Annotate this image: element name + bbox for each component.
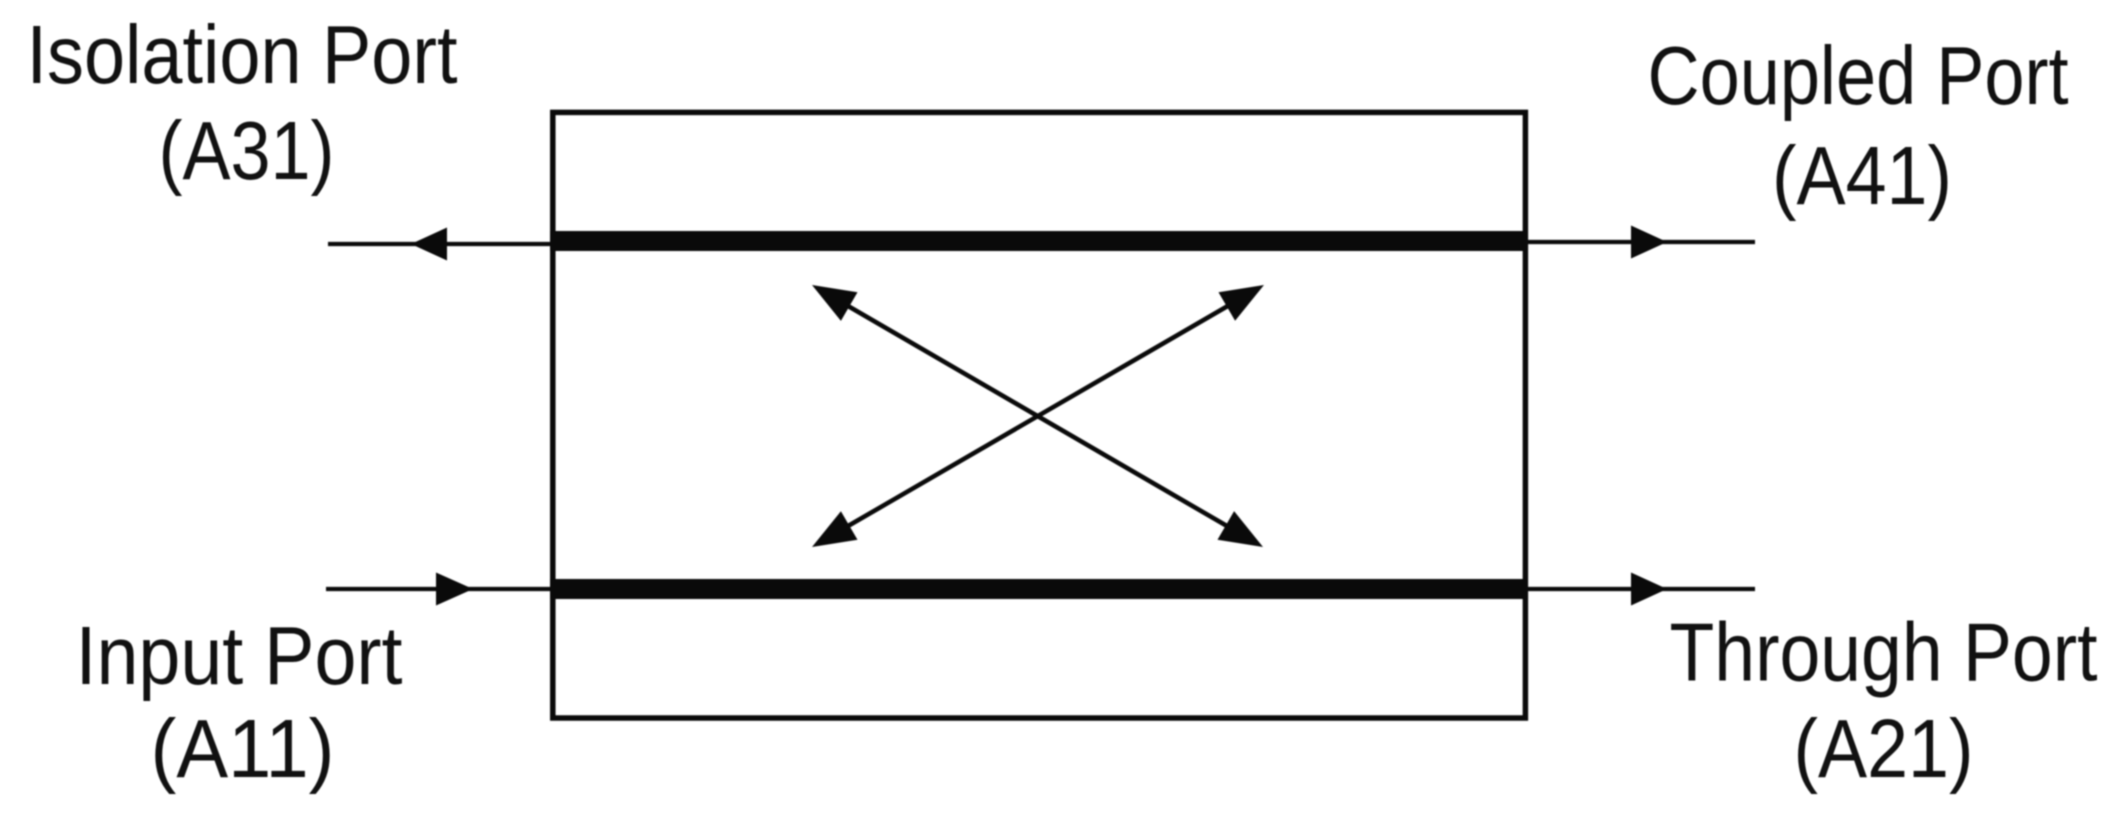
svg-text:Through Port: Through Port xyxy=(1670,606,2098,699)
arrow A head upper-left xyxy=(812,285,858,321)
arrowhead pointing left (isolation port) xyxy=(411,228,447,261)
arrowhead pointing right (coupled port) xyxy=(1631,226,1667,259)
svg-text:Isolation Port: Isolation Port xyxy=(27,8,458,101)
wire: through port lead (bottom right) xyxy=(1525,587,1755,591)
svg-text:Coupled Port: Coupled Port xyxy=(1648,29,2069,122)
coupling path arrow B shaft (down-left to up-right) xyxy=(845,304,1231,528)
arrow A head lower-right xyxy=(1218,511,1264,547)
svg-text:(A21): (A21) xyxy=(1794,702,1974,795)
wire: coupled port lead (top right) xyxy=(1525,240,1755,244)
wire: isolation port lead (top left) xyxy=(328,242,553,246)
coupler body box xyxy=(553,112,1526,718)
bottom main transmission line (thick bar) xyxy=(550,579,1528,599)
svg-text:(A41): (A41) xyxy=(1772,129,1952,222)
svg-text:(A31): (A31) xyxy=(159,104,335,197)
arrow B head lower-left xyxy=(812,511,858,547)
top coupled transmission line (thick bar) xyxy=(550,231,1528,251)
svg-text:(A11): (A11) xyxy=(151,702,335,795)
wire: input port lead (bottom left) xyxy=(326,587,553,591)
arrowhead pointing right (input port) xyxy=(436,573,473,606)
arrowhead pointing right (through port) xyxy=(1631,573,1667,606)
arrow B head upper-right xyxy=(1219,285,1265,321)
coupling path arrow A shaft (up-left to down-right) xyxy=(845,304,1230,528)
svg-text:Input Port: Input Port xyxy=(76,609,403,702)
